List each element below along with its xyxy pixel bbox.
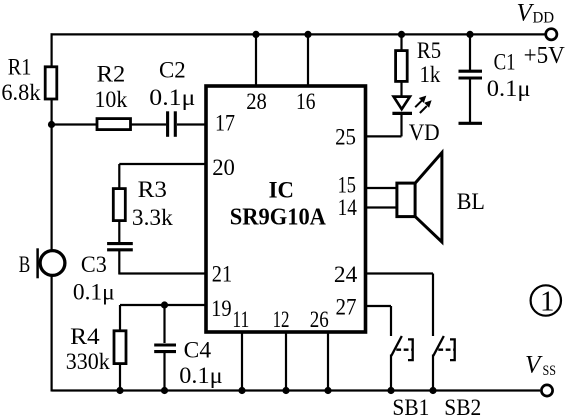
svg-text:VD: VD <box>409 120 440 145</box>
svg-text:SB1: SB1 <box>392 395 429 416</box>
svg-text:C2: C2 <box>159 58 186 83</box>
svg-text:DD: DD <box>533 10 555 27</box>
svg-text:SS: SS <box>543 363 557 379</box>
svg-text:17: 17 <box>215 110 235 135</box>
svg-text:27: 27 <box>336 295 357 320</box>
svg-text:R2: R2 <box>97 62 126 87</box>
svg-text:10k: 10k <box>95 87 128 112</box>
svg-text:0.1μ: 0.1μ <box>73 279 115 304</box>
svg-text:3.3k: 3.3k <box>132 205 173 230</box>
svg-text:16: 16 <box>296 89 316 114</box>
svg-text:V: V <box>525 352 543 379</box>
svg-text:26: 26 <box>310 307 329 332</box>
svg-text:C4: C4 <box>184 338 212 363</box>
svg-text:0.1μ: 0.1μ <box>487 76 531 101</box>
svg-text:R4: R4 <box>70 324 100 349</box>
svg-text:1k: 1k <box>420 62 441 87</box>
svg-text:R1: R1 <box>8 54 32 79</box>
svg-text:C3: C3 <box>81 252 107 277</box>
svg-text:21: 21 <box>212 262 232 287</box>
svg-text:14: 14 <box>338 195 358 220</box>
svg-text:25: 25 <box>335 124 356 149</box>
svg-text:6.8k: 6.8k <box>1 80 41 105</box>
svg-text:R3: R3 <box>138 177 167 202</box>
svg-text:12: 12 <box>273 307 290 332</box>
svg-text:B: B <box>19 252 31 277</box>
svg-text:28: 28 <box>246 89 267 114</box>
svg-text:20: 20 <box>212 155 235 180</box>
svg-text:SB2: SB2 <box>444 395 481 416</box>
svg-text:330k: 330k <box>66 349 110 374</box>
svg-text:24: 24 <box>334 262 358 287</box>
svg-text:11: 11 <box>232 307 249 332</box>
svg-text:R5: R5 <box>417 38 441 63</box>
svg-text:1: 1 <box>540 286 555 318</box>
svg-text:+5V: +5V <box>524 42 565 69</box>
svg-text:BL: BL <box>457 189 485 214</box>
svg-text:0.1μ: 0.1μ <box>149 85 195 110</box>
svg-text:15: 15 <box>338 173 356 198</box>
svg-text:IC: IC <box>269 178 294 203</box>
svg-text:C1: C1 <box>494 50 516 75</box>
svg-text:SR9G10A: SR9G10A <box>230 205 327 231</box>
svg-text:19: 19 <box>211 296 232 321</box>
svg-text:0.1μ: 0.1μ <box>179 363 222 388</box>
